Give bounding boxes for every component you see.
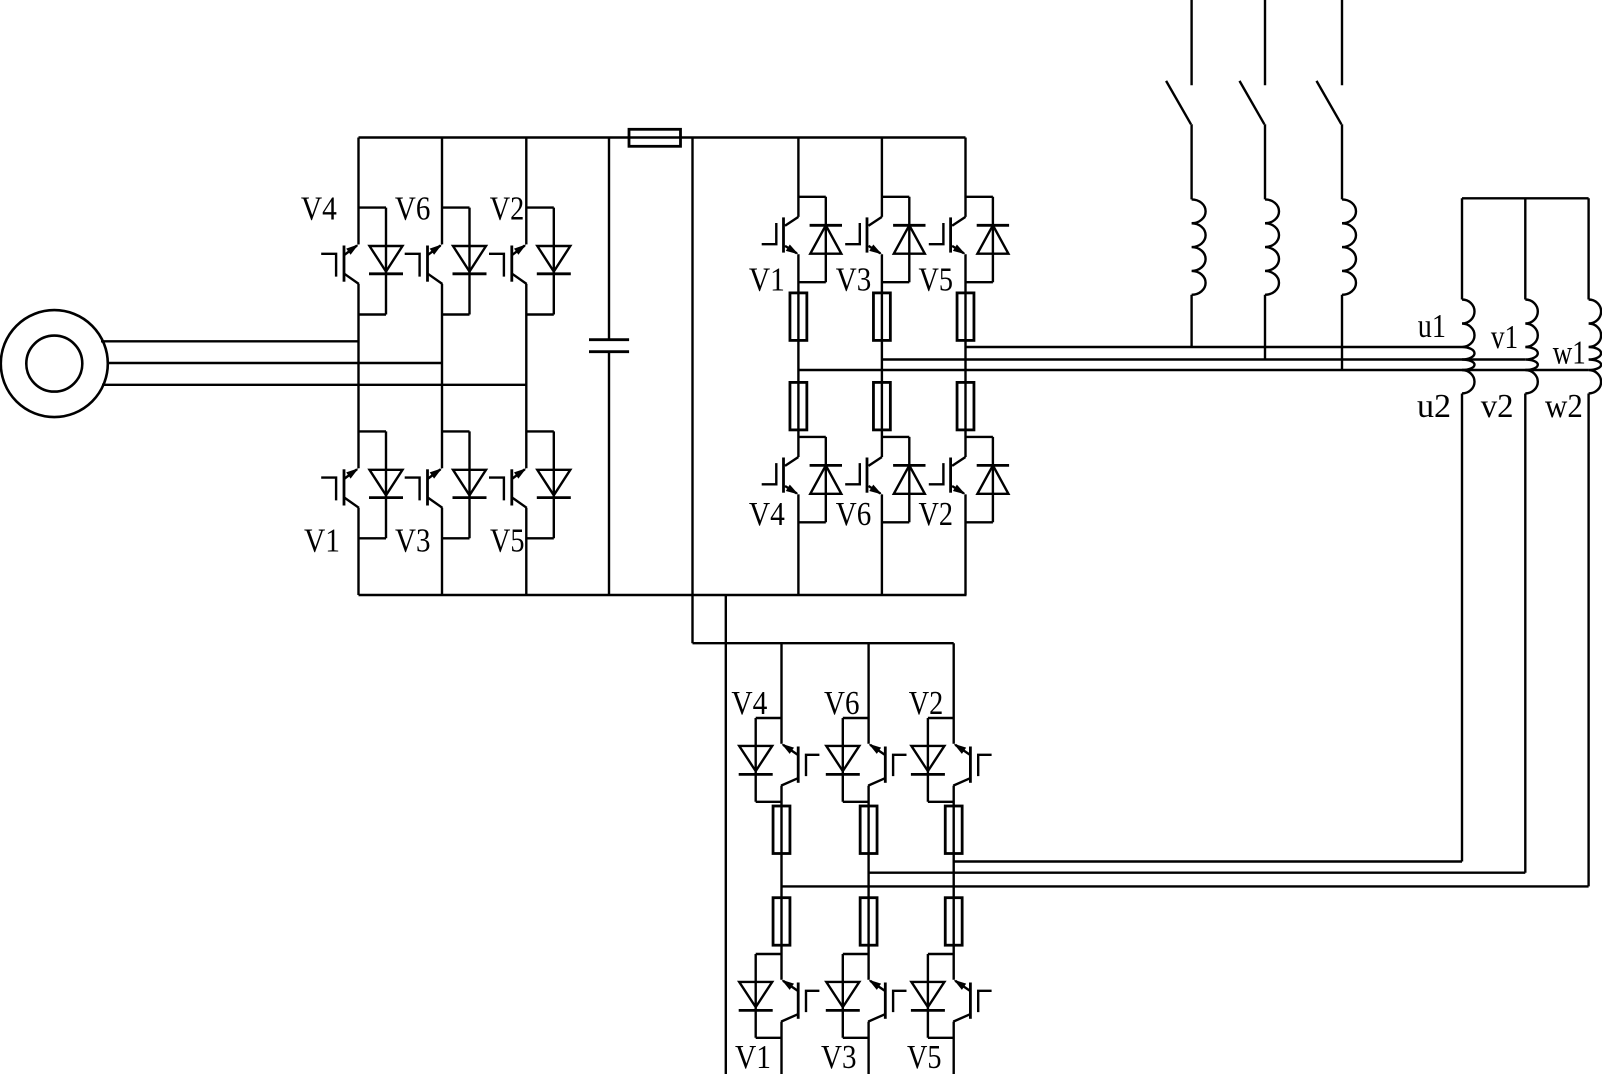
svg-text:V5: V5 bbox=[490, 523, 525, 560]
svg-text:V3: V3 bbox=[821, 1039, 857, 1074]
svg-text:V3: V3 bbox=[836, 262, 872, 299]
svg-text:V5: V5 bbox=[907, 1039, 942, 1074]
svg-text:w1: w1 bbox=[1553, 335, 1586, 372]
svg-text:V3: V3 bbox=[395, 523, 431, 560]
svg-text:V1: V1 bbox=[749, 262, 785, 299]
svg-text:V1: V1 bbox=[304, 523, 340, 560]
svg-text:V2: V2 bbox=[919, 496, 954, 533]
svg-text:V2: V2 bbox=[909, 685, 944, 722]
svg-text:V4: V4 bbox=[301, 191, 337, 228]
svg-text:w2: w2 bbox=[1545, 388, 1583, 425]
svg-text:V4: V4 bbox=[749, 496, 785, 533]
svg-text:V5: V5 bbox=[919, 262, 954, 299]
svg-text:V6: V6 bbox=[824, 685, 860, 722]
svg-text:u2: u2 bbox=[1417, 388, 1451, 425]
svg-text:V2: V2 bbox=[490, 191, 525, 228]
svg-text:V6: V6 bbox=[395, 191, 431, 228]
svg-text:u1: u1 bbox=[1418, 308, 1446, 345]
svg-text:V1: V1 bbox=[735, 1039, 771, 1074]
svg-text:v2: v2 bbox=[1481, 388, 1514, 425]
svg-text:V6: V6 bbox=[836, 496, 872, 533]
svg-text:v1: v1 bbox=[1491, 319, 1518, 356]
svg-text:V4: V4 bbox=[731, 685, 767, 722]
